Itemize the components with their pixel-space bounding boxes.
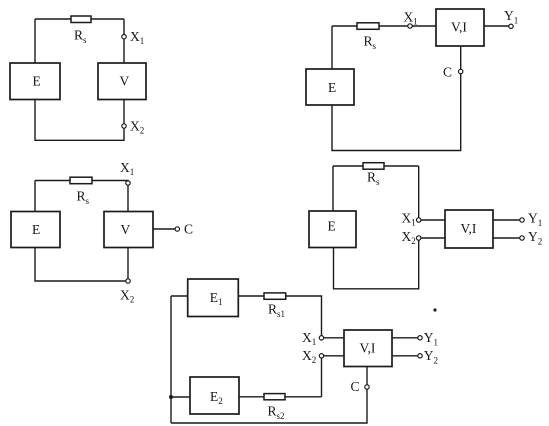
node Y1 (circuit 2) <box>509 24 513 28</box>
box E (circuit 1) <box>10 63 60 100</box>
wire: X1 to V,I box (circuit 2) <box>412 25 436 27</box>
label Y1 (circuit 5) <box>424 330 438 348</box>
svg-text:E: E <box>328 219 336 234</box>
junction dot (left rail / E2) <box>169 395 173 399</box>
label C (circuit 5) <box>351 379 360 394</box>
svg-text:Rs1: Rs1 <box>268 302 285 320</box>
svg-text:E: E <box>32 222 40 237</box>
label C (circuit 3) <box>184 222 193 237</box>
wire: left rail circuit 1 <box>34 19 36 63</box>
label Y2 (circuit 5) <box>424 348 438 366</box>
svg-text:Rs2: Rs2 <box>268 404 285 422</box>
label Rs1 <box>268 302 285 320</box>
box V,I (circuit 2) <box>436 9 484 46</box>
resistor Rs2 <box>264 394 285 400</box>
resistor Rs1 <box>264 293 286 299</box>
wire: C stub from V,I bottom (circuit 2) <box>460 46 462 69</box>
wire: X1 drop circuit 1 <box>123 19 125 63</box>
node C (circuit 5) <box>365 385 369 389</box>
wire: E1 left lead <box>171 295 188 297</box>
svg-text:Rs: Rs <box>74 28 87 46</box>
wire: top rail circuit 2 <box>332 25 408 27</box>
wire: bottom return circuit 2 <box>332 74 461 151</box>
wire: E2 left lead <box>171 396 190 398</box>
wire: X2 to box (circuit 4) <box>421 237 445 239</box>
svg-text:X1: X1 <box>302 330 316 347</box>
node X1 (circuit 4) <box>417 218 421 222</box>
node Y1 (circuit 4) <box>520 218 524 222</box>
svg-text:E: E <box>328 80 336 95</box>
label Rs (circuit 2) <box>364 34 377 52</box>
box E1 <box>188 279 239 317</box>
wire: top rail circuit 4 <box>333 165 419 167</box>
resistor Rs (circuit 3) <box>70 177 92 184</box>
label Rs (circuit 1) <box>74 28 87 46</box>
svg-text:V,I: V,I <box>461 221 477 236</box>
node X2 (circuit 1) <box>122 124 126 128</box>
svg-text:Y1: Y1 <box>528 211 542 229</box>
svg-text:X1: X1 <box>402 211 416 228</box>
svg-text:Rs: Rs <box>364 34 377 52</box>
box V (circuit 3) <box>104 212 153 248</box>
wire: E1 to Rs1 <box>238 295 264 297</box>
wire: C stub from V,I bottom (circuit 5) <box>366 367 368 385</box>
wire: bottom return circuit 4 <box>334 240 419 288</box>
label X1 (circuit 4) <box>402 211 416 228</box>
svg-text:Y2: Y2 <box>424 348 438 366</box>
node C (circuit 3) <box>175 227 179 231</box>
svg-text:Y1: Y1 <box>424 330 438 348</box>
resistor Rs (circuit 2) <box>357 23 379 30</box>
label X1 (circuit 2) <box>404 10 418 27</box>
wire: Y2 lead (circuit 4) <box>493 237 520 239</box>
node X1 (circuit 2) <box>408 24 412 28</box>
svg-text:V: V <box>120 74 130 89</box>
svg-text:E1: E1 <box>210 290 223 307</box>
label X2 (circuit 4) <box>402 229 416 246</box>
node X1 (circuit 3) <box>126 181 130 185</box>
wire: top rail circuit 3 <box>35 180 128 182</box>
node Y1 (circuit 5) <box>418 336 422 340</box>
label Rs (circuit 3) <box>77 189 90 207</box>
svg-text:Y1: Y1 <box>504 8 518 26</box>
wire: C lead (circuit 3) <box>153 228 175 230</box>
wire: Y1 lead (circuit 5) <box>392 337 418 339</box>
resistor Rs (circuit 1) <box>71 16 91 23</box>
wire: Y2 lead (circuit 5) <box>392 355 418 357</box>
svg-text:C: C <box>443 65 452 80</box>
wire: Y1 lead (circuit 4) <box>493 219 520 221</box>
svg-text:Y2: Y2 <box>528 229 542 247</box>
node X2 (circuit 3) <box>126 279 130 283</box>
box E2 <box>190 377 239 414</box>
box V,I (circuit 5) <box>344 330 392 367</box>
node X2 (circuit 5) <box>319 354 323 358</box>
label X1 (circuit 5) <box>302 330 316 347</box>
label Y1 (circuit 4) <box>528 211 542 229</box>
wire: E2 to Rs2 <box>239 396 264 398</box>
label C (circuit 2) <box>443 65 452 80</box>
label X2 (circuit 3) <box>120 288 134 305</box>
wire: left rail circuit 4 <box>332 166 334 211</box>
wire: left rail circuit 2 <box>331 26 333 69</box>
wire: resistor down to X1 (circuit 4) <box>418 166 420 218</box>
node Y2 (circuit 5) <box>418 354 422 358</box>
svg-text:V,I: V,I <box>451 20 467 35</box>
wire: C down and bottom return circuit 5 <box>171 389 367 423</box>
wire: X1 to box (circuit 5) <box>324 337 344 339</box>
wire: X2 down to Rs2 line <box>321 358 323 397</box>
box V (circuit 1) <box>98 63 146 100</box>
wire: V bottom to X2 (circuit 1) <box>123 100 125 124</box>
label Y1 (circuit 2) <box>504 8 518 26</box>
box E (circuit 3) <box>11 212 60 248</box>
svg-text:X2: X2 <box>130 119 144 136</box>
wire: X1 to box (circuit 4) <box>421 219 445 221</box>
wire: Rs2 to X2 riser <box>285 396 322 398</box>
label X1 (circuit 3) <box>120 160 134 177</box>
label X1 (circuit 1) <box>130 29 144 46</box>
svg-text:C: C <box>351 379 360 394</box>
svg-text:X2: X2 <box>302 348 316 365</box>
svg-text:X2: X2 <box>402 229 416 246</box>
svg-text:C: C <box>184 222 193 237</box>
box V,I (circuit 4) <box>445 210 493 248</box>
wire: X2 to box (circuit 5) <box>324 355 344 357</box>
svg-text:X2: X2 <box>120 288 134 305</box>
box E (circuit 2) <box>306 69 354 105</box>
wire: left rail circuit 5 <box>170 296 172 423</box>
node Y2 (circuit 4) <box>520 236 524 240</box>
svg-text:X1: X1 <box>120 160 134 177</box>
node X2 (circuit 4) <box>417 236 421 240</box>
node X1 (circuit 5) <box>319 336 323 340</box>
node X1 (circuit 1) <box>122 35 126 39</box>
wire: left rail circuit 3 <box>34 181 36 212</box>
node C (circuit 2) <box>459 69 463 73</box>
wire: bottom return circuit 3 <box>35 248 126 282</box>
wire: V bottom to X2 (circuit 3) <box>127 248 129 279</box>
box E (circuit 4) <box>309 211 356 248</box>
svg-text:E: E <box>33 74 41 89</box>
svg-text:E2: E2 <box>210 389 223 406</box>
svg-text:V,I: V,I <box>360 341 376 356</box>
label Rs (circuit 4) <box>367 170 380 188</box>
wire: X1 down to V (circuit 3) <box>127 185 129 211</box>
label X2 (circuit 5) <box>302 348 316 365</box>
label X2 (circuit 1) <box>130 119 144 136</box>
wire: bottom return circuit 1 <box>35 100 124 141</box>
label Rs2 <box>268 404 285 422</box>
wire: top rail circuit 1 <box>35 18 124 20</box>
resistor Rs (circuit 4) <box>363 163 384 170</box>
wire: Y1 lead (circuit 2) <box>484 25 509 27</box>
svg-text:Rs: Rs <box>367 170 380 188</box>
stray dot <box>433 308 436 311</box>
wire: Rs1 to X1 drop <box>286 296 322 336</box>
label Y2 (circuit 4) <box>528 229 542 247</box>
svg-text:Rs: Rs <box>77 189 90 207</box>
svg-text:X1: X1 <box>404 10 418 27</box>
svg-text:X1: X1 <box>130 29 144 46</box>
svg-text:V: V <box>121 222 131 237</box>
